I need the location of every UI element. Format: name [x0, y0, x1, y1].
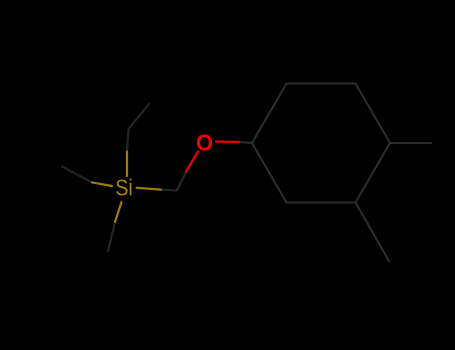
wire methyl on C5 — [356, 203, 390, 262]
wire methyl on C4 — [390, 142, 431, 144]
wire ring edge C1-C2 — [252, 84, 287, 144]
wire ring edge C6-C1 — [252, 143, 287, 203]
wire carbon half of O-C1 bond — [239, 142, 252, 143]
silicon bonds (olive) — [92, 152, 161, 223]
wire Si-CH2 top ethyl — [126, 152, 128, 177]
oxygen bonds (red) — [186, 142, 239, 172]
benzene ring C1-C2-C3-C4-C5-C6 (carbon bonds, dark) — [239, 84, 431, 262]
wire O-CH2 bond red half — [186, 152, 198, 172]
wire Si-CH2 left ethyl — [92, 182, 112, 186]
wire Si-CH2 right (to OCH2) — [137, 188, 161, 190]
svg-text:Si: Si — [115, 175, 133, 201]
svg-text:O: O — [196, 130, 213, 156]
wire Si-CH2 bottom ethyl — [115, 202, 122, 222]
wire carbon half of O-CH2 bond — [177, 172, 186, 191]
wire O-C1 bond red half — [216, 140, 239, 143]
wire ethyl CH3 (bottom) — [108, 222, 115, 252]
wire ring edge C3-C4 — [356, 84, 391, 144]
near-Si carbon segments (slightly dimmer) — [62, 104, 186, 252]
wire ring edge C2-C3 — [287, 82, 356, 84]
wire ethyl CH2-CH3 (top) — [127, 104, 149, 152]
wire ethyl CH3 (left) — [62, 167, 92, 183]
wire carbon part of Si-CH2 bond — [161, 189, 177, 192]
wire ring edge C5-C6 — [287, 201, 356, 203]
wire ring edge C4-C5 — [356, 143, 391, 203]
